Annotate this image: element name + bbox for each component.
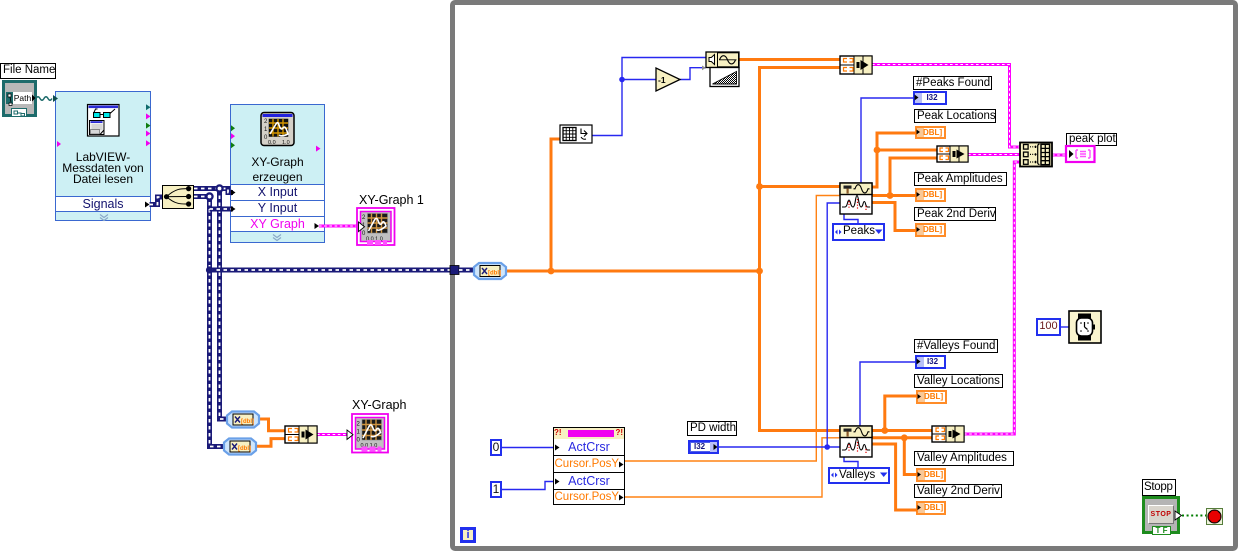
terminal XY-Graph 1 — [357, 208, 395, 245]
wire magenta bundle2 to build array — [968, 153, 1020, 156]
row Y Input — [231, 200, 324, 216]
wire orange thin Cursor.PosY 1 to peaks threshold — [625, 196, 840, 462]
wait (ms) node — [1069, 311, 1101, 343]
path control File Name — [2, 80, 37, 117]
junction circle on out1 — [215, 184, 223, 192]
indicator Peak 2nd Deriv DBL — [915, 223, 946, 237]
iteration terminal i — [460, 527, 476, 543]
wire blue constant 1 to property node — [502, 482, 553, 490]
wire orange valley 2nd deriv — [872, 444, 917, 510]
property node ActCrsr/Cursor.PosY — [553, 427, 625, 505]
junction circle on out2 — [205, 192, 213, 200]
constant 1 — [490, 481, 502, 498]
label Peak Amplitudes — [914, 172, 1007, 186]
express VI 1 edge arrows — [57, 104, 151, 220]
label Peak Locations — [914, 109, 996, 123]
row X Input — [231, 184, 324, 200]
enum constant Valleys — [828, 467, 890, 484]
label XY-Graph — [352, 398, 406, 412]
wire blue PD width to detectors — [719, 203, 840, 450]
wire blue peaks enum stub — [844, 214, 858, 224]
terminal peak plot — [1066, 146, 1095, 162]
wire orange convert2 to bundle XY — [256, 439, 285, 447]
indicator Valley Amplitudes DBL — [916, 468, 946, 482]
row XY Graph — [231, 216, 324, 232]
junction dots orange main — [548, 183, 763, 274]
express VI 2 edge arrows — [231, 125, 321, 240]
wire magenta bundle XY to terminal — [317, 433, 352, 436]
label Peak 2nd Deriv — [914, 207, 996, 221]
wire orange peak amplitudes — [872, 158, 937, 199]
splitter curves — [164, 186, 191, 207]
terminal XY-Graph — [347, 414, 388, 453]
property node arrows — [555, 445, 624, 501]
convert from dynamic data node (in loop) — [474, 263, 506, 279]
bundle node 3 (valleys) — [932, 426, 964, 442]
wire boolean stop to condition — [1175, 511, 1206, 520]
wire orange peak 2nd deriv — [872, 203, 916, 231]
while loop — [450, 0, 1238, 551]
label PD width — [687, 421, 737, 436]
wire orange thin Cursor.PosY 2 to valleys threshold — [625, 438, 840, 497]
condition terminal octagon — [1208, 510, 1221, 523]
loop condition terminal — [1206, 508, 1223, 525]
svg-text:1.0: 1.0 — [282, 140, 290, 146]
svg-text:[dbl]: [dbl] — [238, 446, 251, 452]
wire orange valley locations — [872, 396, 932, 434]
wire magenta XY Graph to terminal — [319, 225, 358, 228]
wire dynamic branch to loop tunnel — [210, 268, 453, 273]
wire dynamic splitter out1 down to convert node 1 — [220, 189, 228, 420]
wire magenta bundle1 to build array — [872, 65, 1020, 148]
bundle node 1 (top) — [840, 56, 872, 74]
express VI 2 icon (mini XY graph) — [261, 113, 294, 147]
bundle node XY (bottom left) — [285, 426, 317, 443]
peak detector (Valleys) — [840, 426, 872, 457]
label Valley Locations — [914, 374, 1003, 388]
wire orange valley amplitudes — [872, 434, 932, 474]
wire orange branch to peak detector 1 — [760, 185, 841, 188]
indicator #Peaks Found I32 — [913, 91, 947, 105]
indicator #Valleys Found I32 — [915, 355, 946, 369]
wire blue #Peaks Found — [861, 98, 913, 183]
enum glyphs — [831, 230, 888, 478]
wire orange convert1 to bundle XY — [259, 419, 285, 431]
peak detector (Peaks) — [840, 183, 872, 214]
express VI 1 icon (glasses + floppy) — [88, 105, 120, 137]
wire orange branch up to array size — [551, 139, 560, 271]
split signals node body — [162, 185, 194, 209]
svg-text:[dbl]: [dbl] — [241, 419, 254, 425]
svg-text:0.0: 0.0 — [268, 140, 276, 146]
wire dynamic tunnel to convert node — [459, 268, 474, 273]
wire blue array size to tone/gain — [592, 58, 706, 136]
express VI LabVIEW-Messdaten von Datei lesen — [55, 91, 151, 221]
label Valley 2nd Deriv — [914, 484, 1002, 498]
wire orange peak locations — [872, 133, 937, 187]
svg-text:[dbl]: [dbl] — [488, 271, 501, 277]
label XY-Graph 1 — [359, 193, 424, 207]
label peak plot — [1066, 133, 1117, 146]
wire blue valleys enum stub — [844, 457, 858, 468]
indicator Valley 2nd Deriv DBL — [916, 501, 946, 515]
row Signals — [56, 196, 150, 212]
wire dynamic splitter out2 vertical — [194, 197, 224, 447]
constant 100 — [1036, 318, 1061, 336]
indicator/control terminal arrows — [714, 95, 922, 511]
junction dot tunnel branch — [206, 266, 213, 273]
enum constant Peaks — [832, 223, 885, 241]
express VI XY-Graph erzeugen — [230, 104, 325, 243]
wire magenta build array to peak plot — [1052, 154, 1066, 157]
indicator Valley Locations DBL — [916, 390, 947, 404]
loop tunnel — [450, 266, 459, 275]
bundle node 2 (peaks) — [937, 146, 968, 162]
label File Name — [0, 63, 56, 79]
control PD width I32 — [688, 440, 719, 454]
wire dynamic Signals to splitter — [150, 197, 163, 205]
label Stopp — [1142, 479, 1176, 496]
wire magenta bundle3 to build array — [964, 162, 1020, 434]
array size node — [560, 125, 592, 143]
constant 0 — [490, 439, 502, 456]
wire blue 100 to wait — [1061, 326, 1069, 328]
path control glyphs — [8, 94, 36, 116]
label Valley Amplitudes — [914, 451, 1014, 466]
wire dynamic splitter out1 to X Input — [194, 189, 233, 193]
tone/ramp node — [702, 52, 739, 87]
indicator Peak Locations DBL — [915, 126, 946, 139]
indicator Peak Amplitudes DBL — [915, 188, 946, 202]
boolean terminal Stopp — [1142, 496, 1180, 534]
label #Peaks Found — [913, 76, 992, 90]
wire blue constant 0 to property node — [502, 447, 553, 449]
wire path File Name to express VI (wavy teal) — [36, 95, 58, 102]
wire dynamic branch to Y Input — [210, 207, 234, 212]
wire orange vertical trunk with bundle/peak branches — [760, 68, 841, 431]
wire blue #Valleys Found — [860, 362, 915, 426]
wire orange tone output to bundle 1 — [739, 58, 840, 61]
convert from dynamic data node 1 (bottom left) — [227, 412, 259, 428]
svg-text:-1: -1 — [658, 75, 666, 85]
convert from dynamic data node 2 (bottom left) — [224, 439, 256, 455]
gain -1 node — [656, 68, 680, 91]
label #Valleys Found — [914, 339, 998, 353]
wire orange main (convert out to vertical) — [506, 270, 760, 273]
build array node — [1020, 143, 1052, 167]
